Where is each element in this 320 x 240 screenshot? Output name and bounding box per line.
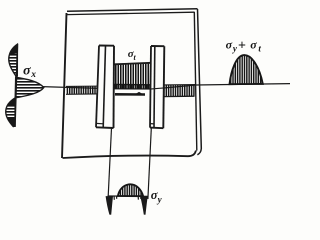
sigma_y right negative wedge (140, 196, 148, 215)
sigma_x bottom lobe (compression) (6, 98, 15, 127)
plate outline (62, 9, 201, 158)
sigma_y central bump (118, 184, 143, 196)
svg-text:σ: σ (250, 37, 257, 51)
small bump on thick mark (135, 92, 143, 94)
sigma_x top lobe dark tip (10, 44, 18, 55)
thick mark under gap line (115, 93, 145, 96)
sigma_y small ticks below baseline (112, 196, 141, 200)
sigma_x middle lobe (tension) (15, 77, 44, 98)
sigma_x bottom lobe dark tip (7, 118, 15, 127)
left band bottom edge (66, 93, 106, 96)
sigma_t base band top line (114, 83, 152, 85)
right bar (vertical strap, 3D) (150, 46, 164, 128)
right band top edge (163, 84, 195, 86)
sigma_t region top edge (114, 63, 152, 65)
right stress band (inside plate, right of right bar) (163, 85, 195, 97)
left band top edge (66, 85, 106, 87)
left bar (vertical strap, 3D) (96, 46, 114, 129)
svg-text:σ: σ (226, 37, 233, 51)
center line through gap (redrawn over bars) (150, 88, 164, 89)
right band bottom edge (163, 95, 195, 97)
center line (stress axis) (42, 84, 290, 89)
sigma_x bottom lobe dark top (7, 98, 15, 107)
sigma_x axis (15, 44, 18, 127)
svg-text:σ: σ (23, 63, 31, 78)
sigma_y + sigma_t bump (right of plate) (230, 55, 263, 84)
left stress band (inside plate, left of left bar) (66, 86, 106, 94)
sigma_x top lobe (compression) (9, 44, 18, 76)
left leader line (108, 128, 111, 196)
sigma_y baseline (108, 195, 149, 197)
svg-text:+: + (238, 39, 246, 54)
sigma_t region dense base band (114, 84, 152, 89)
sigma_y left negative wedge (106, 196, 113, 215)
sigma_t hatched region (between bars) (114, 63, 152, 89)
right leader line (148, 128, 151, 199)
svg-text:x: x (30, 70, 36, 80)
